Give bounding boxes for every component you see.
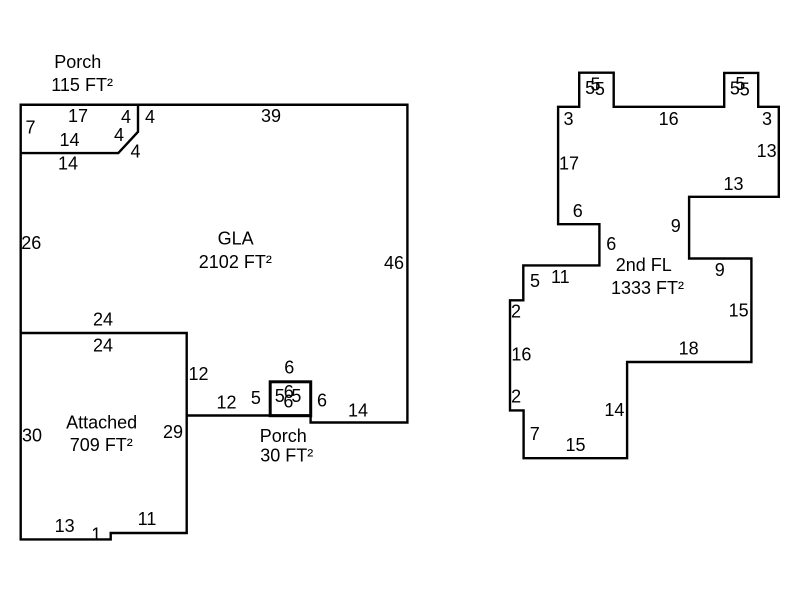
svg-text:5: 5: [251, 388, 261, 408]
small porch box: [270, 382, 311, 416]
svg-text:16: 16: [511, 345, 531, 365]
svg-text:17: 17: [559, 154, 579, 174]
svg-text:39: 39: [261, 106, 281, 126]
svg-text:GLA: GLA: [218, 228, 254, 248]
svg-text:5: 5: [735, 74, 745, 94]
porch interior wall (right side, diagonal, bottom): [21, 105, 138, 153]
svg-text:2: 2: [511, 302, 521, 322]
svg-text:709 FT²: 709 FT²: [70, 435, 133, 455]
svg-text:6: 6: [317, 391, 327, 411]
svg-text:6: 6: [283, 391, 293, 411]
svg-text:7: 7: [530, 424, 540, 444]
svg-text:1333 FT²: 1333 FT²: [611, 278, 684, 298]
svg-text:11: 11: [138, 509, 157, 529]
svg-text:13: 13: [723, 174, 743, 194]
svg-text:4: 4: [145, 107, 155, 127]
svg-text:4: 4: [114, 125, 124, 145]
second floor outline: [510, 73, 779, 459]
svg-text:115 FT²: 115 FT²: [51, 75, 113, 95]
svg-text:5: 5: [530, 271, 540, 291]
svg-text:Porch: Porch: [54, 52, 101, 72]
svg-text:24: 24: [93, 310, 113, 330]
svg-text:4: 4: [130, 142, 140, 162]
svg-text:26: 26: [21, 233, 41, 253]
svg-text:5: 5: [590, 74, 600, 94]
svg-text:18: 18: [679, 338, 699, 358]
svg-text:12: 12: [188, 364, 208, 384]
svg-text:15: 15: [565, 435, 585, 455]
first floor outer wall: [21, 105, 408, 540]
svg-text:12: 12: [216, 393, 236, 413]
svg-text:2: 2: [511, 386, 521, 406]
svg-text:46: 46: [384, 253, 404, 273]
svg-text:29: 29: [163, 422, 183, 442]
svg-text:6: 6: [606, 234, 616, 254]
garage interior wall (top and right): [21, 333, 187, 416]
svg-text:2nd FL: 2nd FL: [616, 255, 672, 275]
svg-text:6: 6: [284, 358, 294, 378]
svg-text:13: 13: [55, 516, 75, 536]
svg-text:30 FT²: 30 FT²: [260, 446, 313, 466]
svg-text:2102 FT²: 2102 FT²: [199, 252, 272, 272]
svg-text:9: 9: [671, 216, 681, 236]
svg-text:6: 6: [573, 201, 583, 221]
svg-text:24: 24: [93, 335, 113, 355]
svg-text:30: 30: [22, 425, 42, 445]
svg-text:17: 17: [68, 106, 88, 126]
svg-text:Attached: Attached: [66, 413, 137, 433]
svg-text:14: 14: [59, 130, 79, 150]
svg-text:4: 4: [121, 107, 131, 127]
svg-text:7: 7: [25, 118, 35, 138]
svg-text:14: 14: [58, 154, 78, 174]
svg-text:1: 1: [91, 524, 101, 544]
svg-text:9: 9: [715, 260, 725, 280]
svg-text:15: 15: [729, 301, 749, 321]
svg-text:14: 14: [348, 401, 368, 421]
svg-text:3: 3: [563, 109, 573, 129]
svg-text:11: 11: [551, 267, 570, 287]
svg-text:14: 14: [604, 400, 624, 420]
svg-text:13: 13: [757, 141, 777, 161]
svg-text:Porch: Porch: [260, 426, 307, 446]
svg-text:16: 16: [659, 109, 679, 129]
svg-text:3: 3: [762, 109, 772, 129]
